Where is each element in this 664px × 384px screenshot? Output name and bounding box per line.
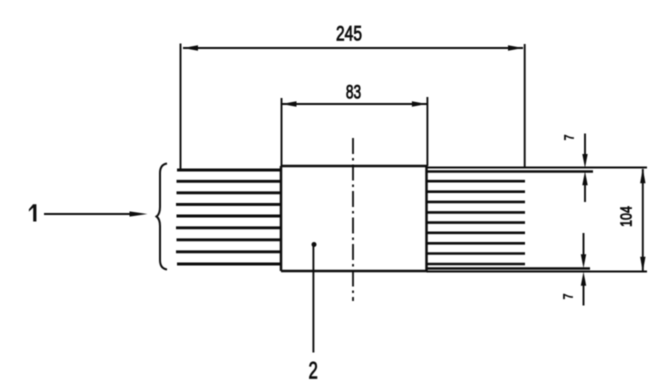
svg-text:7: 7 bbox=[561, 294, 575, 300]
svg-text:2: 2 bbox=[309, 358, 318, 384]
svg-text:7: 7 bbox=[562, 135, 576, 141]
svg-text:83: 83 bbox=[346, 81, 361, 103]
svg-text:245: 245 bbox=[336, 21, 362, 45]
svg-text:104: 104 bbox=[618, 206, 636, 227]
